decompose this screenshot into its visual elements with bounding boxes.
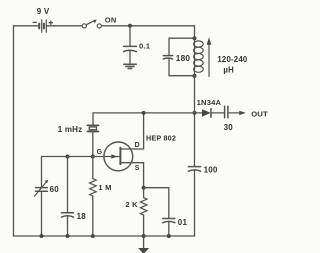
capacitor C6 100 (188, 167, 200, 236)
svg-text:18: 18 (77, 212, 87, 221)
capacitor C3 60 variable (34, 157, 48, 237)
label 01 (178, 218, 188, 227)
label D (135, 142, 140, 149)
node junction 60 bottom (40, 234, 44, 238)
node junction 2K ground (142, 234, 146, 238)
resistor R2 2K (140, 188, 147, 236)
wire gate line (42, 156, 120, 158)
label 2 K (125, 200, 138, 209)
node junction gate (91, 155, 95, 159)
node junction 18 branch (66, 155, 70, 159)
node junction tank bottom (193, 74, 197, 78)
label 1 mHz (58, 125, 83, 134)
battery B1 9V (33, 20, 52, 32)
node junction drain (142, 111, 146, 115)
wire bottom rail (14, 235, 195, 237)
svg-text:100: 100 (204, 166, 218, 175)
capacitor C1 0.1 (124, 46, 137, 63)
wire crystal branch top (92, 113, 94, 125)
ground bottom (138, 236, 149, 253)
svg-text:0.1: 0.1 (139, 41, 151, 50)
label 180 (176, 53, 191, 63)
svg-text:G: G (97, 149, 103, 156)
label 30 (224, 123, 234, 132)
svg-text:D: D (135, 142, 140, 149)
label HEP 802 (146, 133, 176, 142)
resistor R1 1M (90, 157, 97, 237)
svg-text:OUT: OUT (251, 110, 268, 119)
label S (135, 165, 140, 172)
capacitor C2 180 (163, 56, 172, 59)
svg-text:9 V: 9 V (37, 7, 50, 16)
label 1 M (98, 183, 111, 192)
inductor L1 (194, 38, 204, 75)
svg-text:1 mHz: 1 mHz (58, 125, 83, 134)
node junction C5 bottom (167, 234, 171, 238)
label 60 (50, 185, 60, 194)
node junction 1M bottom (91, 234, 95, 238)
label G (97, 149, 103, 156)
label 100 (204, 166, 218, 175)
svg-text:1N34A: 1N34A (197, 98, 222, 107)
capacitor C4 18 (62, 157, 74, 237)
node junction 18 bottom (66, 234, 70, 238)
switch S1 (82, 20, 101, 29)
capacitor C5 .01 (163, 219, 175, 237)
svg-text:180: 180 (176, 53, 191, 63)
label 18 (77, 212, 87, 221)
node junction detector (193, 111, 197, 115)
arrow tuning adjustment (207, 37, 212, 76)
label 1N34A (197, 98, 222, 107)
wire tank top (169, 38, 195, 55)
ground under C1 (124, 64, 136, 68)
svg-text:S: S (135, 165, 140, 172)
wire left rail (13, 26, 15, 236)
node junction top C1 (128, 24, 132, 28)
diode D1 1N34A (195, 109, 224, 118)
label 9 V (37, 7, 50, 16)
wire source to C5 (144, 188, 169, 218)
wire switch to top-right corner, down to tank (102, 26, 195, 38)
transistor Q1 HEP802 (104, 113, 144, 188)
node junction source (142, 186, 146, 190)
capacitor C7 30 (225, 106, 228, 118)
svg-text:01: 01 (178, 218, 188, 227)
wire battery to switch (46, 25, 82, 27)
label 0.1 (139, 41, 151, 50)
svg-text:HEP 802: HEP 802 (146, 133, 176, 142)
svg-text:30: 30 (224, 123, 234, 132)
svg-text:60: 60 (50, 185, 60, 194)
label OUT (251, 110, 268, 119)
arrow output (229, 111, 246, 115)
wire right vertical rail (194, 76, 196, 166)
label ON (105, 15, 117, 24)
label uH (223, 65, 234, 74)
wire feedback horizontal (93, 112, 195, 114)
wire top left to battery (14, 25, 40, 27)
crystal Y1 1 mHz (87, 125, 98, 156)
svg-text:µH: µH (223, 65, 234, 74)
svg-text:120-240: 120-240 (217, 55, 247, 64)
svg-text:1 M: 1 M (98, 183, 111, 192)
wire junction down to C1 (129, 26, 131, 46)
label 120-240 (217, 55, 247, 64)
wire tank bottom (169, 59, 195, 76)
node junction tank top (193, 36, 197, 40)
svg-text:2 K: 2 K (125, 200, 138, 209)
svg-text:ON: ON (105, 15, 117, 24)
